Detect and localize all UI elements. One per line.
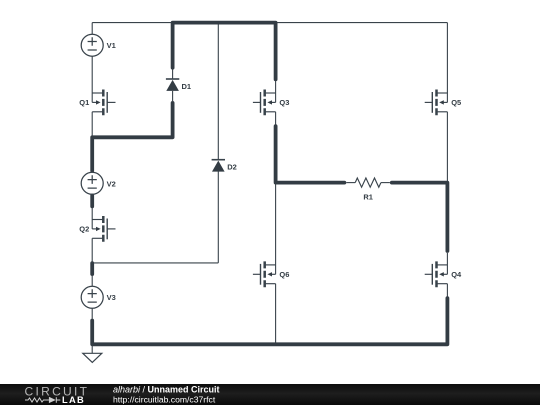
wire Q5 source down	[446, 112, 448, 183]
voltage source V3	[81, 286, 103, 308]
wire V1 top lead	[91, 23, 93, 35]
voltage source V2	[81, 172, 103, 194]
svg-text:Q5: Q5	[451, 98, 461, 107]
wire Q3 column to Q6	[275, 183, 277, 275]
wire top rail thin	[92, 22, 447, 24]
transistor Q3	[253, 90, 276, 116]
logo resistor-diode glyph	[25, 397, 60, 403]
wire node to V3	[91, 276, 93, 286]
voltage source V1	[81, 34, 103, 56]
svg-text:http://circuitlab.com/c37rfct: http://circuitlab.com/c37rfct	[113, 395, 216, 405]
wire D2 to node	[217, 171, 219, 263]
wire bold V3 minus / bottom rail / Q4 source	[92, 298, 447, 344]
svg-text:V1: V1	[107, 41, 116, 50]
wire node to D2 anode	[92, 262, 218, 264]
wire V3 bottom	[91, 308, 93, 319]
ground	[83, 353, 102, 362]
wire bold R1 to Q4 drain	[392, 183, 448, 251]
wire Q2 source to node	[91, 238, 93, 263]
wire D1 top link	[172, 69, 174, 79]
svg-text:Q6: Q6	[279, 270, 289, 279]
transistor Q5	[425, 90, 448, 116]
diode D2	[212, 160, 225, 172]
wire R1 right lead	[381, 182, 390, 184]
svg-text:V3: V3	[107, 293, 116, 302]
svg-text:Q4: Q4	[451, 270, 462, 279]
wire bold node stub	[90, 263, 94, 274]
svg-text:Q1: Q1	[79, 98, 89, 107]
wire Q3 drain entry	[275, 81, 277, 102]
transistor Q6	[253, 261, 276, 287]
svg-text:D1: D1	[182, 82, 192, 91]
svg-text:D2: D2	[227, 162, 237, 171]
svg-text:Q3: Q3	[279, 98, 289, 107]
wire bold D1 anode to V2 plus	[92, 103, 172, 171]
wire Q1 source down	[91, 112, 93, 136]
wire Q6 source to bottom rail	[275, 284, 277, 345]
svg-text:V2: V2	[107, 179, 116, 188]
wire Q4 drain entry	[446, 253, 448, 274]
svg-text:Q2: Q2	[79, 225, 89, 234]
wire R1 left lead	[346, 182, 355, 184]
wire Q3 source down	[275, 112, 277, 125]
svg-text:R1: R1	[363, 192, 373, 201]
wire right rail to Q5	[446, 23, 448, 103]
svg-text:alharbi / Unnamed Circuit: alharbi / Unnamed Circuit	[113, 384, 220, 394]
diode D1	[166, 79, 179, 91]
wire bold Q3 source to R1	[276, 126, 345, 183]
wire Q4 source down	[446, 284, 448, 297]
wire bold V2 minus stub	[90, 196, 94, 207]
svg-text:LAB: LAB	[62, 395, 85, 405]
resistor R1	[355, 178, 381, 187]
transistor Q1	[92, 90, 115, 116]
wire V2 to Q2	[91, 207, 93, 229]
wire bold top rail with D1 and Q3 drops	[173, 23, 276, 80]
transistor Q4	[425, 261, 448, 287]
wire ground lead	[91, 344, 93, 353]
wire top rail to D2	[217, 23, 219, 160]
transistor Q2	[92, 216, 115, 242]
wire D1 bottom link	[172, 91, 174, 101]
wire V1 to Q1	[91, 56, 93, 102]
